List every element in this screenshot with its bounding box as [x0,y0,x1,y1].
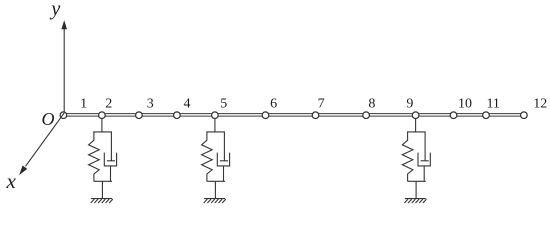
svg-text:6: 6 [270,97,277,112]
svg-text:x: x [6,169,17,193]
svg-text:2: 2 [105,97,112,112]
svg-text:O: O [42,109,55,129]
svg-text:5: 5 [220,97,227,112]
svg-text:10: 10 [458,97,472,112]
svg-text:9: 9 [406,97,413,112]
svg-text:12: 12 [533,97,547,112]
svg-text:1: 1 [80,97,87,112]
svg-text:y: y [49,0,60,20]
svg-text:7: 7 [318,97,325,112]
svg-text:4: 4 [184,97,191,112]
svg-text:11: 11 [486,97,499,112]
svg-text:8: 8 [368,97,375,112]
svg-text:3: 3 [147,97,154,112]
